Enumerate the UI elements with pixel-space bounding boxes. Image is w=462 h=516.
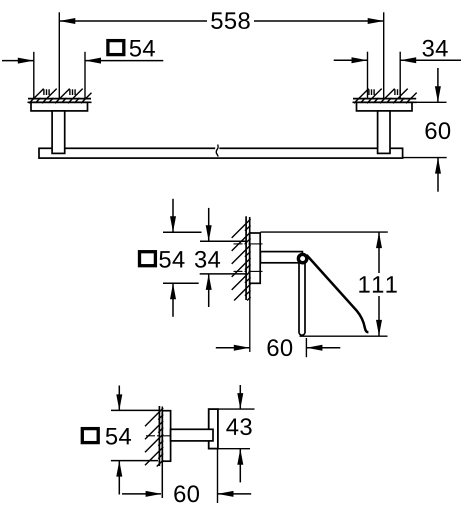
dim 111: label: [359, 276, 396, 292]
screw centerline lower: [234, 270, 263, 272]
dim 60 mid: label: [268, 339, 293, 356]
dim 111: extension lines: [260, 231, 387, 233]
roll holder bar (open position): [307, 255, 369, 332]
dim 558 extension line right: [383, 12, 385, 98]
mounting plate left: [31, 102, 88, 111]
dim 60 bottom: lines + arrows: [122, 491, 251, 497]
dim sq54 mid: square symbol: [140, 252, 156, 266]
dim 60 top: extension lines: [409, 101, 447, 103]
dim 60 top: label: [426, 122, 451, 139]
dim sq54 top: lines + arrows: [2, 58, 163, 64]
dim 34 top: label: [423, 40, 448, 57]
post left: [52, 111, 65, 153]
wall (paper holder view): [246, 216, 250, 352]
dim 34 mid: lines + arrows: [200, 208, 246, 307]
hook stem: [171, 429, 213, 441]
hook head: [209, 409, 218, 449]
pivot: [298, 254, 306, 262]
wall hatch left (towel bar view): [29, 89, 92, 104]
towel bar: [39, 148, 403, 158]
dim 558 line + arrows: [59, 18, 383, 24]
post right: [378, 111, 390, 153]
roll holder bar (closed position): [299, 257, 305, 335]
dim 34 top: extension lines: [367, 52, 369, 98]
wall left (towel bar view): [28, 99, 92, 103]
screw centerline (hook): [146, 435, 172, 437]
wall (hook view): [159, 406, 162, 498]
dim sq54 bottom: lines + arrows: [111, 386, 159, 495]
wall hatch right (towel bar view): [354, 89, 417, 104]
dim sq54 mid: label: [159, 251, 184, 268]
dim 60 top: arrows: [435, 68, 441, 192]
break mark on towel bar: [215, 145, 219, 157]
dim 43: arrows: [237, 385, 243, 482]
mounting plate (paper holder view): [250, 233, 261, 283]
dim 60 mid: lines + arrows: [216, 345, 340, 351]
wall right (towel bar view): [353, 99, 417, 103]
mounting plate right: [357, 102, 413, 111]
dim sq54 top: square symbol: [108, 41, 124, 55]
dim sq54 mid: lines + arrows: [163, 199, 202, 317]
dim sq54 bottom: label: [106, 428, 131, 445]
screw centerline upper: [234, 243, 263, 245]
dim 60 bottom: label: [174, 485, 199, 502]
dim 34 mid: label: [195, 251, 220, 268]
dim 558 extension line left: [58, 12, 60, 98]
dim 60 bottom: extension line right: [217, 449, 219, 503]
dim 43: extension lines: [218, 408, 255, 410]
wall hatch (paper holder view): [232, 219, 251, 301]
dim 111: line + arrows: [376, 232, 382, 336]
dim 34 top: lines + arrows: [334, 57, 461, 63]
wall hatch (hook view): [145, 408, 163, 467]
dim 43: label: [226, 418, 251, 435]
dim 60 mid: extension line right: [305, 338, 307, 357]
dim sq54 top: label: [130, 40, 155, 57]
dim sq54 bottom: square symbol: [82, 429, 98, 443]
dim 558 label: [211, 12, 250, 29]
dim sq54 top: extension lines: [33, 52, 35, 98]
holder arm: [260, 252, 302, 263]
mounting plate (hook view): [162, 411, 170, 462]
